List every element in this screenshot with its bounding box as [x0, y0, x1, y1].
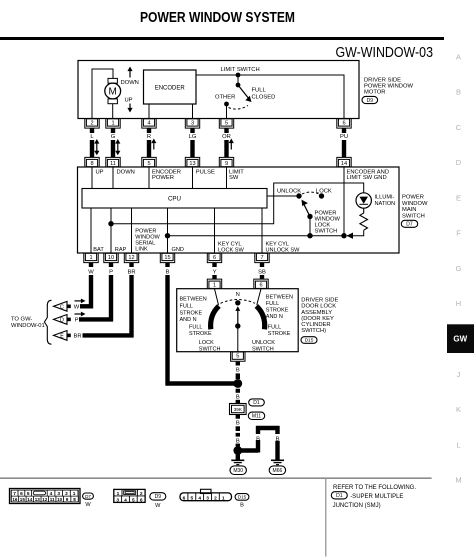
svg-text:B: B [236, 438, 240, 444]
wire pin to CPU [148, 167, 150, 189]
svg-text:AND N: AND N [180, 317, 197, 323]
svg-text:UP: UP [125, 97, 133, 103]
connector D9 oval footer [150, 493, 166, 501]
resistor R1 [360, 208, 368, 230]
svg-text:E: E [456, 193, 461, 202]
label ILLUMI-NATION [375, 195, 396, 207]
svg-text:K: K [456, 405, 461, 414]
header rule [0, 37, 444, 40]
connector D15 oval [301, 337, 317, 344]
svg-text:SWITCH): SWITCH) [301, 328, 326, 334]
svg-text:FULL: FULL [252, 88, 267, 94]
svg-text:JUNCTION (SMJ): JUNCTION (SMJ) [333, 503, 381, 509]
pin 1 [84, 253, 98, 263]
label DRIVER SIDE DOOR LOCK ASSEMBLY [301, 298, 338, 335]
junction gnd-pin15 [165, 233, 170, 238]
svg-text:SWITCH: SWITCH [252, 347, 274, 353]
arrow out [81, 299, 86, 304]
junction pin14 gnd [341, 233, 346, 238]
pin 14 [337, 157, 351, 167]
arrow up OR [229, 139, 234, 144]
pin 4 [142, 119, 156, 129]
svg-text:12: 12 [42, 497, 48, 502]
svg-text:10: 10 [108, 255, 114, 261]
svg-text:STROKE: STROKE [180, 311, 203, 317]
pin 2 [85, 119, 99, 129]
wire LG [189, 128, 197, 158]
svg-text:MAIN: MAIN [402, 207, 417, 213]
wire G [111, 128, 116, 158]
svg-text:J: J [457, 370, 461, 379]
connector triangle D [54, 315, 71, 325]
power window lock switch SW2 [296, 192, 324, 236]
svg-text:W: W [155, 503, 161, 509]
wire W stub [88, 263, 94, 276]
arrow bidirectional G [115, 139, 120, 155]
svg-text:C: C [456, 123, 462, 132]
svg-text:POWER WINDOW SYSTEM: POWER WINDOW SYSTEM [140, 10, 295, 26]
svg-text:CPU: CPU [168, 196, 181, 203]
svg-text:OTHER: OTHER [215, 95, 235, 101]
svg-text:UNLOCK SW: UNLOCK SW [266, 248, 301, 254]
svg-text:B: B [236, 395, 240, 401]
D7 pin cells top [11, 490, 78, 497]
svg-text:BR: BR [73, 334, 81, 340]
svg-text:8: 8 [90, 161, 93, 167]
wire encoder to pin 3 [192, 104, 194, 119]
pin 6 [337, 119, 351, 129]
label ENCODER AND LIMIT SW GND [347, 169, 390, 181]
wire SB run [260, 275, 264, 280]
connector face D7 [10, 489, 81, 504]
refer note SMJ [333, 494, 404, 509]
svg-text:R: R [147, 134, 151, 140]
wire pin to CPU [226, 167, 228, 189]
label TO GW-WINDOW-01 [11, 317, 45, 329]
label LIMIT SW [229, 170, 244, 181]
label DRIVER SIDE POWER WINDOW MOTOR [364, 77, 413, 95]
svg-text:D9: D9 [367, 98, 374, 104]
svg-text:ILLUMI-: ILLUMI- [375, 195, 395, 201]
label UNLOCK SWITCH [252, 340, 275, 352]
connector D7 oval [401, 220, 417, 227]
wire CPU to unlock contact [267, 195, 299, 197]
wire BR stub [127, 263, 135, 276]
wire pin1 to lock contact [215, 289, 219, 305]
svg-text:P: P [109, 269, 113, 275]
svg-text:M: M [109, 87, 117, 98]
svg-text:Y: Y [213, 269, 217, 275]
svg-text:1: 1 [89, 255, 92, 261]
wire pin to CPU [112, 167, 114, 189]
pin 5 [231, 352, 245, 362]
wire CPU to pin [131, 208, 133, 253]
svg-text:D7: D7 [406, 222, 413, 228]
svg-text:DOOR LOCK: DOOR LOCK [301, 304, 336, 310]
wire P run [79, 275, 113, 321]
wire P stub [109, 263, 113, 276]
pin 15 [160, 253, 174, 263]
label POWER WINDOW SERIAL LINK [135, 228, 160, 252]
svg-text:D: D [456, 158, 462, 167]
junction lock switch gnd [307, 233, 312, 238]
wire illumination feed [111, 183, 364, 224]
connector M30 oval [230, 466, 246, 475]
svg-text:11: 11 [50, 497, 55, 502]
wire CPU to pin [110, 208, 112, 253]
svg-text:POWER: POWER [315, 210, 337, 216]
svg-text:1: 1 [213, 283, 216, 289]
svg-text:PU: PU [340, 134, 348, 140]
svg-text:GW-WINDOW-03: GW-WINDOW-03 [336, 44, 434, 61]
label KEY CYL UNLOCK SW [266, 242, 301, 254]
svg-text:B: B [256, 437, 260, 443]
svg-text:D1: D1 [336, 493, 343, 499]
svg-text:3: 3 [206, 495, 209, 501]
svg-text:STROKE: STROKE [189, 331, 212, 337]
svg-text:DOWN: DOWN [117, 170, 135, 176]
pin 5 [142, 157, 156, 167]
svg-text:11: 11 [110, 161, 116, 167]
svg-text:TO GW-: TO GW- [11, 317, 32, 323]
label FULL STROKE right [268, 325, 291, 337]
svg-text:(DOOR KEY: (DOOR KEY [301, 316, 334, 322]
svg-text:P: P [75, 318, 79, 324]
wire PU [340, 128, 348, 158]
driver side power window motor box D9 [78, 61, 359, 119]
connector face D9 [114, 489, 145, 503]
pin 11 [106, 157, 120, 167]
ground M66 [271, 460, 284, 464]
svg-text:B: B [240, 503, 244, 509]
wire pin to CPU [192, 167, 194, 189]
svg-text:OR: OR [222, 134, 231, 140]
svg-text:DRIVER SIDE: DRIVER SIDE [301, 298, 338, 304]
svg-text:15: 15 [164, 255, 170, 261]
pin 1 [106, 119, 120, 129]
svg-text:REFER TO THE FOLLOWING.: REFER TO THE FOLLOWING. [333, 485, 416, 491]
svg-text:9: 9 [225, 161, 228, 167]
svg-text:D15: D15 [305, 338, 314, 344]
svg-text:D15: D15 [238, 495, 247, 500]
connector D1 oval [249, 399, 265, 406]
wire B segment 2 [236, 415, 240, 447]
contact OTHER [224, 102, 229, 107]
wire BR run [83, 275, 134, 337]
svg-text:4: 4 [198, 495, 201, 501]
svg-text:RAP: RAP [115, 247, 127, 253]
svg-text:4: 4 [124, 497, 127, 503]
wire resistor return [347, 230, 364, 236]
svg-text:6: 6 [183, 495, 186, 501]
svg-text:LOCK SW: LOCK SW [218, 248, 245, 254]
svg-text:12: 12 [128, 255, 134, 261]
wire limit switch to pin 6 [196, 75, 344, 119]
svg-text:SWITCH: SWITCH [315, 229, 338, 235]
svg-text:8: 8 [73, 497, 76, 502]
svg-text:H: H [456, 299, 461, 308]
svg-text:LG: LG [189, 134, 197, 140]
svg-text:WINDOW: WINDOW [315, 217, 341, 223]
svg-text:C: C [60, 304, 64, 310]
cpu U1 [82, 189, 267, 209]
svg-text:MOTOR: MOTOR [364, 89, 385, 95]
svg-text:6: 6 [259, 283, 262, 289]
svg-text:LINK: LINK [135, 246, 148, 252]
connector 39K SMJ [230, 404, 247, 415]
svg-text:W: W [85, 502, 91, 508]
encoder [144, 70, 197, 104]
connector D1 oval footer [331, 492, 347, 499]
svg-text:UNLOCK: UNLOCK [277, 188, 301, 194]
svg-text:WINDOW: WINDOW [402, 201, 428, 207]
label ENCODER POWER [152, 170, 181, 181]
svg-text:5: 5 [147, 161, 150, 167]
svg-text:5: 5 [236, 354, 239, 360]
svg-text:6: 6 [342, 120, 345, 126]
svg-text:5: 5 [191, 495, 194, 501]
svg-text:M: M [455, 476, 461, 485]
wire B run to junction [166, 275, 238, 386]
svg-text:9: 9 [66, 497, 69, 502]
pin 8 [85, 157, 99, 167]
wire pin to CPU [91, 167, 93, 189]
wire B below pin 5 [236, 362, 240, 380]
wire SB stub [258, 263, 266, 276]
svg-text:D1: D1 [253, 400, 260, 406]
power window main switch box D7 [78, 167, 400, 253]
svg-text:CYLINDER: CYLINDER [301, 322, 330, 328]
svg-text:GW: GW [453, 335, 467, 344]
svg-text:7: 7 [260, 255, 263, 261]
svg-text:LOCK: LOCK [199, 340, 214, 346]
arrow up R [151, 139, 156, 144]
pin 9 [219, 157, 233, 167]
connector face D15 [180, 489, 232, 501]
wire L [90, 128, 94, 158]
svg-text:2: 2 [214, 495, 217, 501]
motor loop wire [92, 69, 113, 119]
label POWER WINDOW MAIN SWITCH [402, 195, 428, 220]
svg-text:N: N [236, 292, 240, 298]
svg-text:E: E [60, 334, 64, 340]
svg-text:D9: D9 [155, 494, 162, 500]
svg-text:W: W [88, 269, 94, 275]
pin 3 [185, 119, 199, 129]
connector M66 oval [269, 466, 285, 475]
svg-text:FULL: FULL [180, 304, 193, 310]
svg-text:AND N: AND N [266, 314, 283, 320]
footer rule [0, 477, 432, 479]
svg-text:L: L [456, 440, 460, 449]
svg-text:13: 13 [189, 161, 195, 167]
junction B ground split [233, 446, 242, 455]
illumination LED DS1 [356, 193, 371, 208]
svg-text:D: D [60, 318, 64, 324]
svg-text:2: 2 [140, 491, 143, 497]
svg-text:POWER: POWER [402, 195, 424, 201]
wire gnd bus [168, 235, 345, 237]
svg-text:3: 3 [191, 120, 194, 126]
lock stroke contact arc [211, 306, 219, 329]
svg-text:B: B [236, 367, 240, 373]
D7 pin cells bottom [11, 496, 78, 502]
svg-text:WINDOW-01: WINDOW-01 [11, 323, 45, 329]
wire other contact to pin 5 [226, 104, 228, 119]
svg-text:-SUPER MULTIPLE: -SUPER MULTIPLE [350, 494, 403, 500]
wire pin6 to unlock contact [257, 289, 261, 305]
svg-text:1: 1 [111, 120, 114, 126]
svg-text:FULL: FULL [268, 325, 281, 331]
svg-text:5: 5 [132, 497, 135, 503]
GW section tab [447, 324, 474, 353]
svg-text:FULL: FULL [189, 325, 202, 331]
footer divider [325, 479, 327, 557]
label KEY CYL LOCK SW [218, 242, 245, 254]
svg-text:ASSEMBLY: ASSEMBLY [301, 310, 332, 316]
pin 10 [104, 253, 118, 263]
svg-text:BAT: BAT [93, 247, 104, 253]
wire OR [222, 128, 231, 158]
svg-text:BR: BR [127, 269, 135, 275]
svg-text:SWITCH: SWITCH [199, 347, 221, 353]
svg-text:M66: M66 [273, 468, 283, 474]
svg-text:M11: M11 [252, 414, 262, 420]
arrow up DOWN [127, 67, 132, 72]
connector triangle C [54, 301, 71, 311]
margin row letters [455, 53, 461, 485]
connector D15 oval footer [235, 494, 249, 501]
svg-text:POWER: POWER [152, 175, 174, 181]
svg-text:STROKE: STROKE [266, 308, 289, 314]
svg-text:B: B [236, 421, 240, 427]
svg-text:FULL: FULL [266, 301, 279, 307]
svg-text:ENCODER: ENCODER [155, 85, 186, 91]
svg-text:F: F [456, 229, 461, 238]
svg-text:SWITCH: SWITCH [402, 213, 425, 219]
junction RAP illumination feed [108, 221, 113, 226]
connector M11 oval [248, 412, 264, 420]
svg-text:W: W [74, 305, 80, 311]
svg-text:PULSE: PULSE [196, 170, 215, 176]
svg-text:B: B [166, 269, 170, 275]
contact N [235, 300, 240, 305]
arrow out [81, 312, 86, 317]
svg-text:M30: M30 [233, 468, 243, 474]
pin 1 [207, 279, 221, 289]
svg-text:SW: SW [229, 175, 239, 181]
wire CPU to pin [261, 208, 263, 253]
refer note [333, 485, 416, 491]
dashed key arc [221, 300, 256, 304]
svg-text:NATION: NATION [375, 201, 396, 207]
wire CPU to pin [90, 208, 92, 253]
svg-text:A: A [456, 53, 461, 62]
pin 12 [124, 253, 138, 263]
pin 13 [185, 157, 199, 167]
svg-text:LIMIT SW GND: LIMIT SW GND [347, 175, 387, 181]
pin 5 [219, 119, 233, 129]
pin 6 [207, 253, 221, 263]
pin 6 [254, 279, 268, 289]
svg-text:1: 1 [117, 491, 120, 497]
svg-text:6: 6 [140, 497, 143, 503]
svg-text:DOWN: DOWN [121, 80, 139, 86]
wire bridge to M66 [238, 426, 280, 460]
wire CPU to pin [214, 208, 216, 253]
svg-text:10: 10 [57, 497, 63, 502]
svg-text:5: 5 [225, 120, 228, 126]
pin 7 [255, 253, 269, 263]
wire Y stub [213, 263, 217, 276]
svg-text:BETWEEN: BETWEEN [180, 297, 207, 303]
junction B main [233, 379, 242, 388]
wire W run [80, 275, 93, 308]
svg-text:14: 14 [341, 161, 347, 167]
label BETWEEN FULL STROKE AND N right [266, 295, 293, 321]
svg-text:UP: UP [96, 170, 104, 176]
arrow bidirectional L [94, 139, 99, 155]
arrow into gnd node [347, 233, 354, 239]
connector triangle E [54, 331, 71, 341]
svg-text:SB: SB [258, 269, 266, 275]
label BETWEEN FULL STROKE AND N left [180, 297, 207, 323]
svg-text:39K: 39K [234, 407, 243, 412]
svg-text:G: G [111, 134, 116, 140]
limit switch SW1 [236, 73, 252, 102]
arrow down UP [127, 108, 132, 113]
wire CPU to pin [167, 208, 169, 253]
svg-text:LOCK: LOCK [315, 223, 331, 229]
svg-text:16: 16 [12, 497, 18, 502]
dashed throw arc [229, 106, 249, 110]
svg-text:3: 3 [116, 497, 119, 503]
wire B stub [166, 263, 170, 276]
brace [44, 300, 51, 344]
svg-text:D7: D7 [85, 494, 91, 499]
svg-text:STROKE: STROKE [268, 331, 291, 337]
label FULL CLOSED [252, 88, 276, 101]
wire pin 14 gnd [343, 167, 345, 236]
svg-text:LIMIT SWITCH: LIMIT SWITCH [221, 67, 260, 73]
svg-text:13: 13 [35, 497, 41, 502]
svg-text:GND: GND [172, 247, 184, 253]
svg-text:6: 6 [213, 255, 216, 261]
wire Y run [212, 275, 216, 280]
svg-text:B: B [456, 88, 461, 97]
ground M30 [231, 460, 244, 464]
wire R [147, 128, 151, 158]
svg-text:G: G [456, 264, 462, 273]
svg-text:15: 15 [20, 497, 26, 502]
key cylinder lever [235, 306, 240, 351]
svg-text:UNLOCK: UNLOCK [252, 340, 275, 346]
label LOCK SWITCH [199, 340, 221, 352]
wire encoder to pin 4 [148, 104, 150, 119]
wire to ground M30 [236, 455, 240, 460]
svg-text:14: 14 [27, 497, 33, 502]
connector D9 oval [362, 96, 378, 103]
label FULL STROKE left [189, 325, 212, 337]
svg-text:CLOSED: CLOSED [252, 94, 276, 100]
label POWER WINDOW LOCK SWITCH [315, 210, 341, 234]
unlock stroke contact arc [256, 306, 264, 329]
svg-text:4: 4 [147, 120, 150, 126]
svg-text:BETWEEN: BETWEEN [266, 295, 293, 301]
motor M1 [105, 78, 121, 118]
svg-text:2: 2 [90, 120, 93, 126]
svg-text:1: 1 [222, 495, 225, 501]
